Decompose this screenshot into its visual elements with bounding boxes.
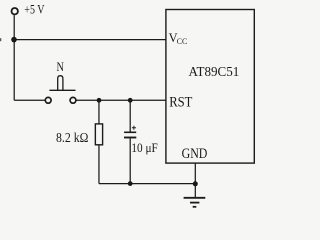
wire: capacitor top lead [129, 100, 131, 131]
capacitor C top plate [124, 131, 136, 133]
wire: switch row left segment [14, 99, 45, 101]
ground symbol bar 2 [190, 202, 199, 204]
svg-text:RST: RST [169, 94, 192, 110]
capacitor C plus sign [132, 126, 136, 130]
wire: GND pin lead [194, 163, 196, 197]
wire: resistor top lead [98, 100, 100, 124]
wire: Vcc horizontal to chip [14, 39, 166, 41]
node: ground junction dot [193, 181, 198, 186]
node: Vcc junction dot [11, 37, 17, 43]
+5V terminal circle [12, 8, 18, 14]
capacitor C bottom plate [124, 137, 136, 139]
svg-text:AT89C51: AT89C51 [189, 65, 240, 80]
svg-text:GND: GND [182, 146, 208, 162]
svg-text:8.2 kΩ: 8.2 kΩ [56, 131, 88, 146]
node: capacitor top junction dot [128, 98, 133, 103]
wire: capacitor bottom lead [129, 138, 131, 183]
node: capacitor bottom junction dot [128, 181, 133, 186]
wire: +5V terminal down to switch row [13, 15, 15, 100]
ground symbol bar 3 [193, 206, 197, 208]
svg-text:10 μF: 10 μF [131, 141, 157, 155]
pushbutton N right contact [70, 97, 76, 103]
ground symbol bar 1 [184, 197, 206, 199]
resistor R 8.2k body [95, 124, 102, 145]
pushbutton N actuator [58, 76, 63, 91]
chip U1 AT89C51 outline [166, 10, 254, 164]
wire: switch row right segment to RST [76, 99, 166, 101]
node: resistor top junction dot [97, 98, 102, 103]
wire: resistor bottom lead [98, 145, 100, 184]
wire: bottom rail [99, 183, 195, 185]
svg-text:N: N [57, 59, 65, 74]
pushbutton N bar [49, 89, 75, 91]
svg-text:+5 V: +5 V [24, 3, 44, 17]
pushbutton N left contact [45, 97, 51, 103]
